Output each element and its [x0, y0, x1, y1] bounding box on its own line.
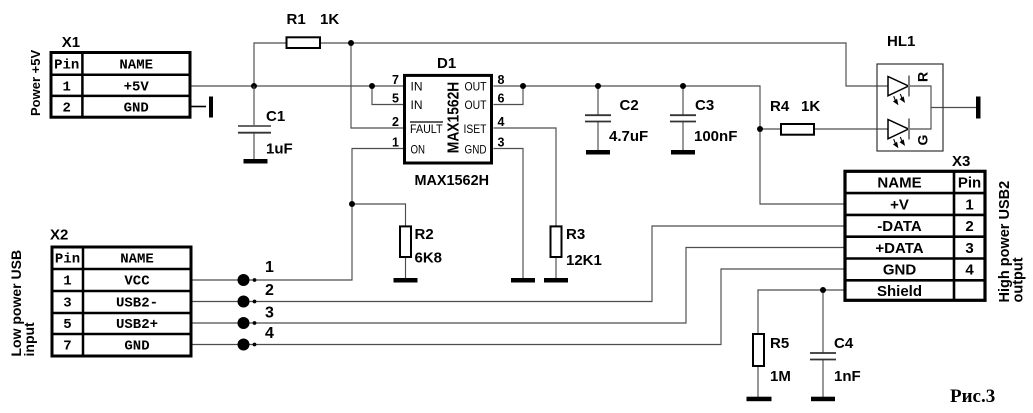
- wire R1 left branch: [254, 43, 287, 86]
- svg-text:C3: C3: [695, 97, 714, 114]
- svg-text:R5: R5: [770, 335, 789, 352]
- svg-text:MAX1562H: MAX1562H: [415, 172, 490, 189]
- svg-text:1: 1: [965, 196, 973, 213]
- svg-text:+V: +V: [890, 196, 909, 213]
- svg-text:C4: C4: [834, 335, 854, 352]
- svg-text:Power +5V: Power +5V: [28, 50, 43, 116]
- wire R4 to green LED: [814, 128, 888, 130]
- svg-text:Рис.3: Рис.3: [950, 386, 995, 407]
- ground (C4): [811, 397, 835, 402]
- connector X3: [845, 171, 985, 300]
- wire R4 left stub: [760, 128, 781, 130]
- svg-text:OUT: OUT: [465, 79, 488, 93]
- svg-text:2: 2: [392, 115, 399, 129]
- svg-text:5: 5: [63, 317, 71, 333]
- svg-text:input: input: [21, 322, 37, 357]
- wire C2: [597, 86, 599, 115]
- junction C2: [595, 83, 601, 89]
- resistor R2: [400, 226, 442, 267]
- svg-text:GND: GND: [465, 142, 487, 156]
- wire ISET pin4 to R3: [494, 128, 556, 226]
- wire R2 to ground: [405, 257, 407, 279]
- green LED: [888, 119, 909, 140]
- svg-text:1uF: 1uF: [266, 141, 293, 158]
- connection point pin 1: [238, 259, 275, 286]
- svg-text:1K: 1K: [320, 11, 339, 28]
- connection point pin 4: [238, 325, 275, 351]
- LED assembly HL1: [877, 64, 943, 151]
- svg-text:ISET: ISET: [464, 122, 488, 136]
- wire ON pin1 to X2 VCC: [191, 149, 405, 281]
- svg-text:GND: GND: [124, 101, 149, 117]
- ground (C1): [244, 159, 268, 164]
- wire ON to R2: [352, 204, 406, 226]
- svg-text:3: 3: [498, 136, 505, 150]
- ground (HL1): [976, 97, 981, 119]
- svg-text:C2: C2: [620, 97, 639, 114]
- ground (R3): [544, 278, 568, 283]
- ground (C3): [671, 150, 695, 155]
- wire output net: [523, 86, 844, 204]
- svg-text:4.7uF: 4.7uF: [609, 128, 648, 145]
- svg-text:Pin: Pin: [958, 175, 981, 192]
- svg-text:MAX1562H: MAX1562H: [446, 82, 463, 154]
- wire FAULT pin2: [351, 43, 405, 128]
- ground (X1 GND): [190, 97, 213, 118]
- svg-text:2: 2: [265, 282, 274, 299]
- capacitor C4: [810, 335, 861, 385]
- svg-text:-DATA: -DATA: [877, 218, 922, 235]
- svg-text:+5V: +5V: [124, 79, 150, 95]
- svg-text:NAME: NAME: [119, 58, 153, 74]
- svg-text:3: 3: [965, 240, 973, 257]
- svg-text:OUT: OUT: [465, 98, 488, 112]
- svg-text:6: 6: [498, 92, 505, 106]
- svg-text:ON: ON: [411, 142, 426, 156]
- wire top net from R1 to HL1 red LED: [351, 43, 888, 86]
- svg-text:1M: 1M: [770, 368, 791, 385]
- red LED: [888, 76, 909, 97]
- svg-text:3: 3: [265, 305, 274, 322]
- ground (D1 GND pin3): [511, 278, 535, 283]
- svg-text:USB2+: USB2+: [116, 317, 158, 333]
- svg-text:3: 3: [63, 296, 71, 312]
- svg-text:R2: R2: [415, 226, 434, 243]
- wire HL1 to ground: [931, 107, 976, 109]
- wire R3 to ground: [555, 257, 557, 279]
- svg-text:output: output: [1011, 257, 1027, 302]
- svg-text:1K: 1K: [801, 98, 820, 115]
- svg-text:7: 7: [63, 339, 71, 355]
- junction OUT pins tie: [520, 83, 526, 89]
- svg-text:D1: D1: [437, 55, 456, 72]
- svg-text:4: 4: [265, 325, 274, 342]
- label High power USB2 output: [997, 181, 1027, 303]
- wire R1 right to node: [320, 42, 351, 44]
- svg-text:7: 7: [392, 73, 399, 87]
- wire +5V from X1 to D1 pin7: [190, 85, 405, 87]
- capacitor C3: [670, 97, 737, 145]
- svg-text:Shield: Shield: [877, 283, 922, 300]
- svg-text:12K1: 12K1: [566, 252, 602, 269]
- connector X1: [51, 53, 190, 118]
- connection point pin 2: [238, 282, 275, 308]
- ground (C2): [586, 150, 610, 155]
- svg-text:HL1: HL1: [887, 33, 915, 50]
- wire IN pin5: [372, 86, 405, 105]
- resistor R4: [770, 98, 820, 135]
- wire Shield to R5/C4: [758, 289, 844, 291]
- svg-text:2: 2: [62, 101, 70, 117]
- red LED arrows: [894, 94, 905, 104]
- svg-text:+DATA: +DATA: [875, 240, 923, 257]
- wire HL1 cathodes: [909, 86, 931, 129]
- svg-text:1: 1: [63, 274, 71, 290]
- green LED arrows: [894, 137, 905, 147]
- wire R5 bottom: [757, 366, 759, 398]
- svg-text:NAME: NAME: [120, 252, 154, 268]
- capacitor C2: [585, 97, 648, 145]
- svg-text:Pin: Pin: [54, 58, 79, 74]
- svg-text:GND: GND: [124, 339, 149, 355]
- svg-text:IN: IN: [411, 79, 423, 93]
- svg-text:R: R: [915, 72, 931, 82]
- junction ON / R2: [349, 201, 355, 207]
- svg-text:2: 2: [965, 218, 973, 235]
- connection point pin 3: [238, 305, 275, 330]
- junction R1 output node: [348, 40, 354, 46]
- svg-text:IN: IN: [411, 98, 423, 112]
- resistor R5: [753, 334, 791, 385]
- svg-text:C1: C1: [266, 108, 285, 125]
- ground (R2): [394, 278, 418, 283]
- ground (R5): [747, 397, 772, 402]
- label Low power USB input: [8, 250, 37, 357]
- svg-text:4: 4: [498, 115, 505, 129]
- wire C3: [682, 86, 684, 115]
- svg-text:1: 1: [265, 259, 274, 276]
- connector X2: [52, 247, 191, 356]
- svg-text:4: 4: [965, 262, 974, 279]
- svg-text:100nF: 100nF: [694, 128, 737, 145]
- junction C3: [680, 83, 686, 89]
- svg-text:FAULT: FAULT: [410, 122, 443, 136]
- svg-text:R4: R4: [770, 98, 790, 115]
- svg-text:X1: X1: [62, 34, 80, 51]
- junction R4 node: [757, 126, 763, 132]
- svg-text:1: 1: [62, 79, 70, 95]
- svg-text:Pin: Pin: [55, 252, 80, 268]
- svg-text:1nF: 1nF: [834, 368, 861, 385]
- svg-text:USB2-: USB2-: [116, 296, 158, 312]
- wire OUT pin6: [494, 86, 523, 105]
- svg-text:6K8: 6K8: [415, 250, 443, 267]
- wire GND pin3 to ground: [494, 149, 523, 280]
- wire +DATA X2 to X3: [191, 248, 844, 324]
- IC D1 MAX1562H: [392, 73, 504, 163]
- wire -DATA X2 to X3: [191, 226, 844, 302]
- svg-text:5: 5: [392, 92, 399, 106]
- svg-text:8: 8: [498, 73, 505, 87]
- svg-text:G: G: [915, 135, 931, 146]
- svg-text:R3: R3: [566, 226, 585, 243]
- wire R5 top: [757, 290, 759, 334]
- resistor R1: [287, 11, 340, 48]
- svg-text:NAME: NAME: [877, 175, 921, 192]
- junction node +5V / R1: [251, 83, 257, 89]
- wire C4 top: [822, 290, 824, 353]
- wire OUT pin8: [494, 85, 523, 87]
- resistor R3: [551, 226, 602, 269]
- svg-text:1: 1: [392, 136, 399, 150]
- junction node +5V / IN5: [369, 83, 375, 89]
- wire GND X2 to X3: [191, 269, 844, 345]
- svg-text:X2: X2: [50, 227, 68, 244]
- svg-text:GND: GND: [883, 262, 917, 279]
- capacitor C1: [238, 86, 293, 159]
- junction Shield / C4: [820, 287, 826, 293]
- wire C4 bottom: [822, 360, 824, 399]
- svg-text:X3: X3: [952, 153, 970, 170]
- svg-text:R1: R1: [287, 11, 306, 28]
- svg-text:VCC: VCC: [124, 274, 150, 290]
